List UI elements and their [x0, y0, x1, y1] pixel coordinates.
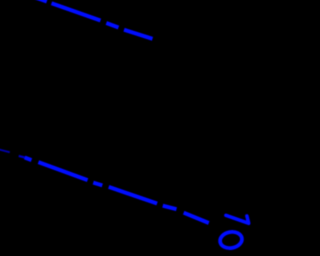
wire: top dashed line, dash 3	[106, 23, 118, 28]
wire: bottom arrow line, dash 5	[109, 187, 157, 204]
wire: bottom arrow line, faint thin lead-in dash 2	[19, 156, 25, 158]
wire: bottom arrow line, faint thin lead-in dash 1	[0, 149, 10, 152]
wire: bottom arrow line, dash 3	[38, 162, 87, 180]
arrowhead of bottom arrow	[226, 215, 249, 223]
circle target (hand-drawn ellipse)	[219, 230, 243, 250]
wire: bottom arrow line, dash 6	[163, 206, 177, 210]
wire: top dashed line, dash 4	[124, 30, 153, 39]
wire: bottom arrow line, dash 4	[93, 183, 102, 186]
wire: top dashed line, dash 2	[52, 3, 101, 20]
wire: bottom arrow line, dash 7	[184, 213, 209, 223]
wire: bottom arrow line, bright start of dash 2	[25, 158, 32, 161]
wire: top dashed line, dash 1 (clipped by top edge)	[32, 0, 47, 2]
